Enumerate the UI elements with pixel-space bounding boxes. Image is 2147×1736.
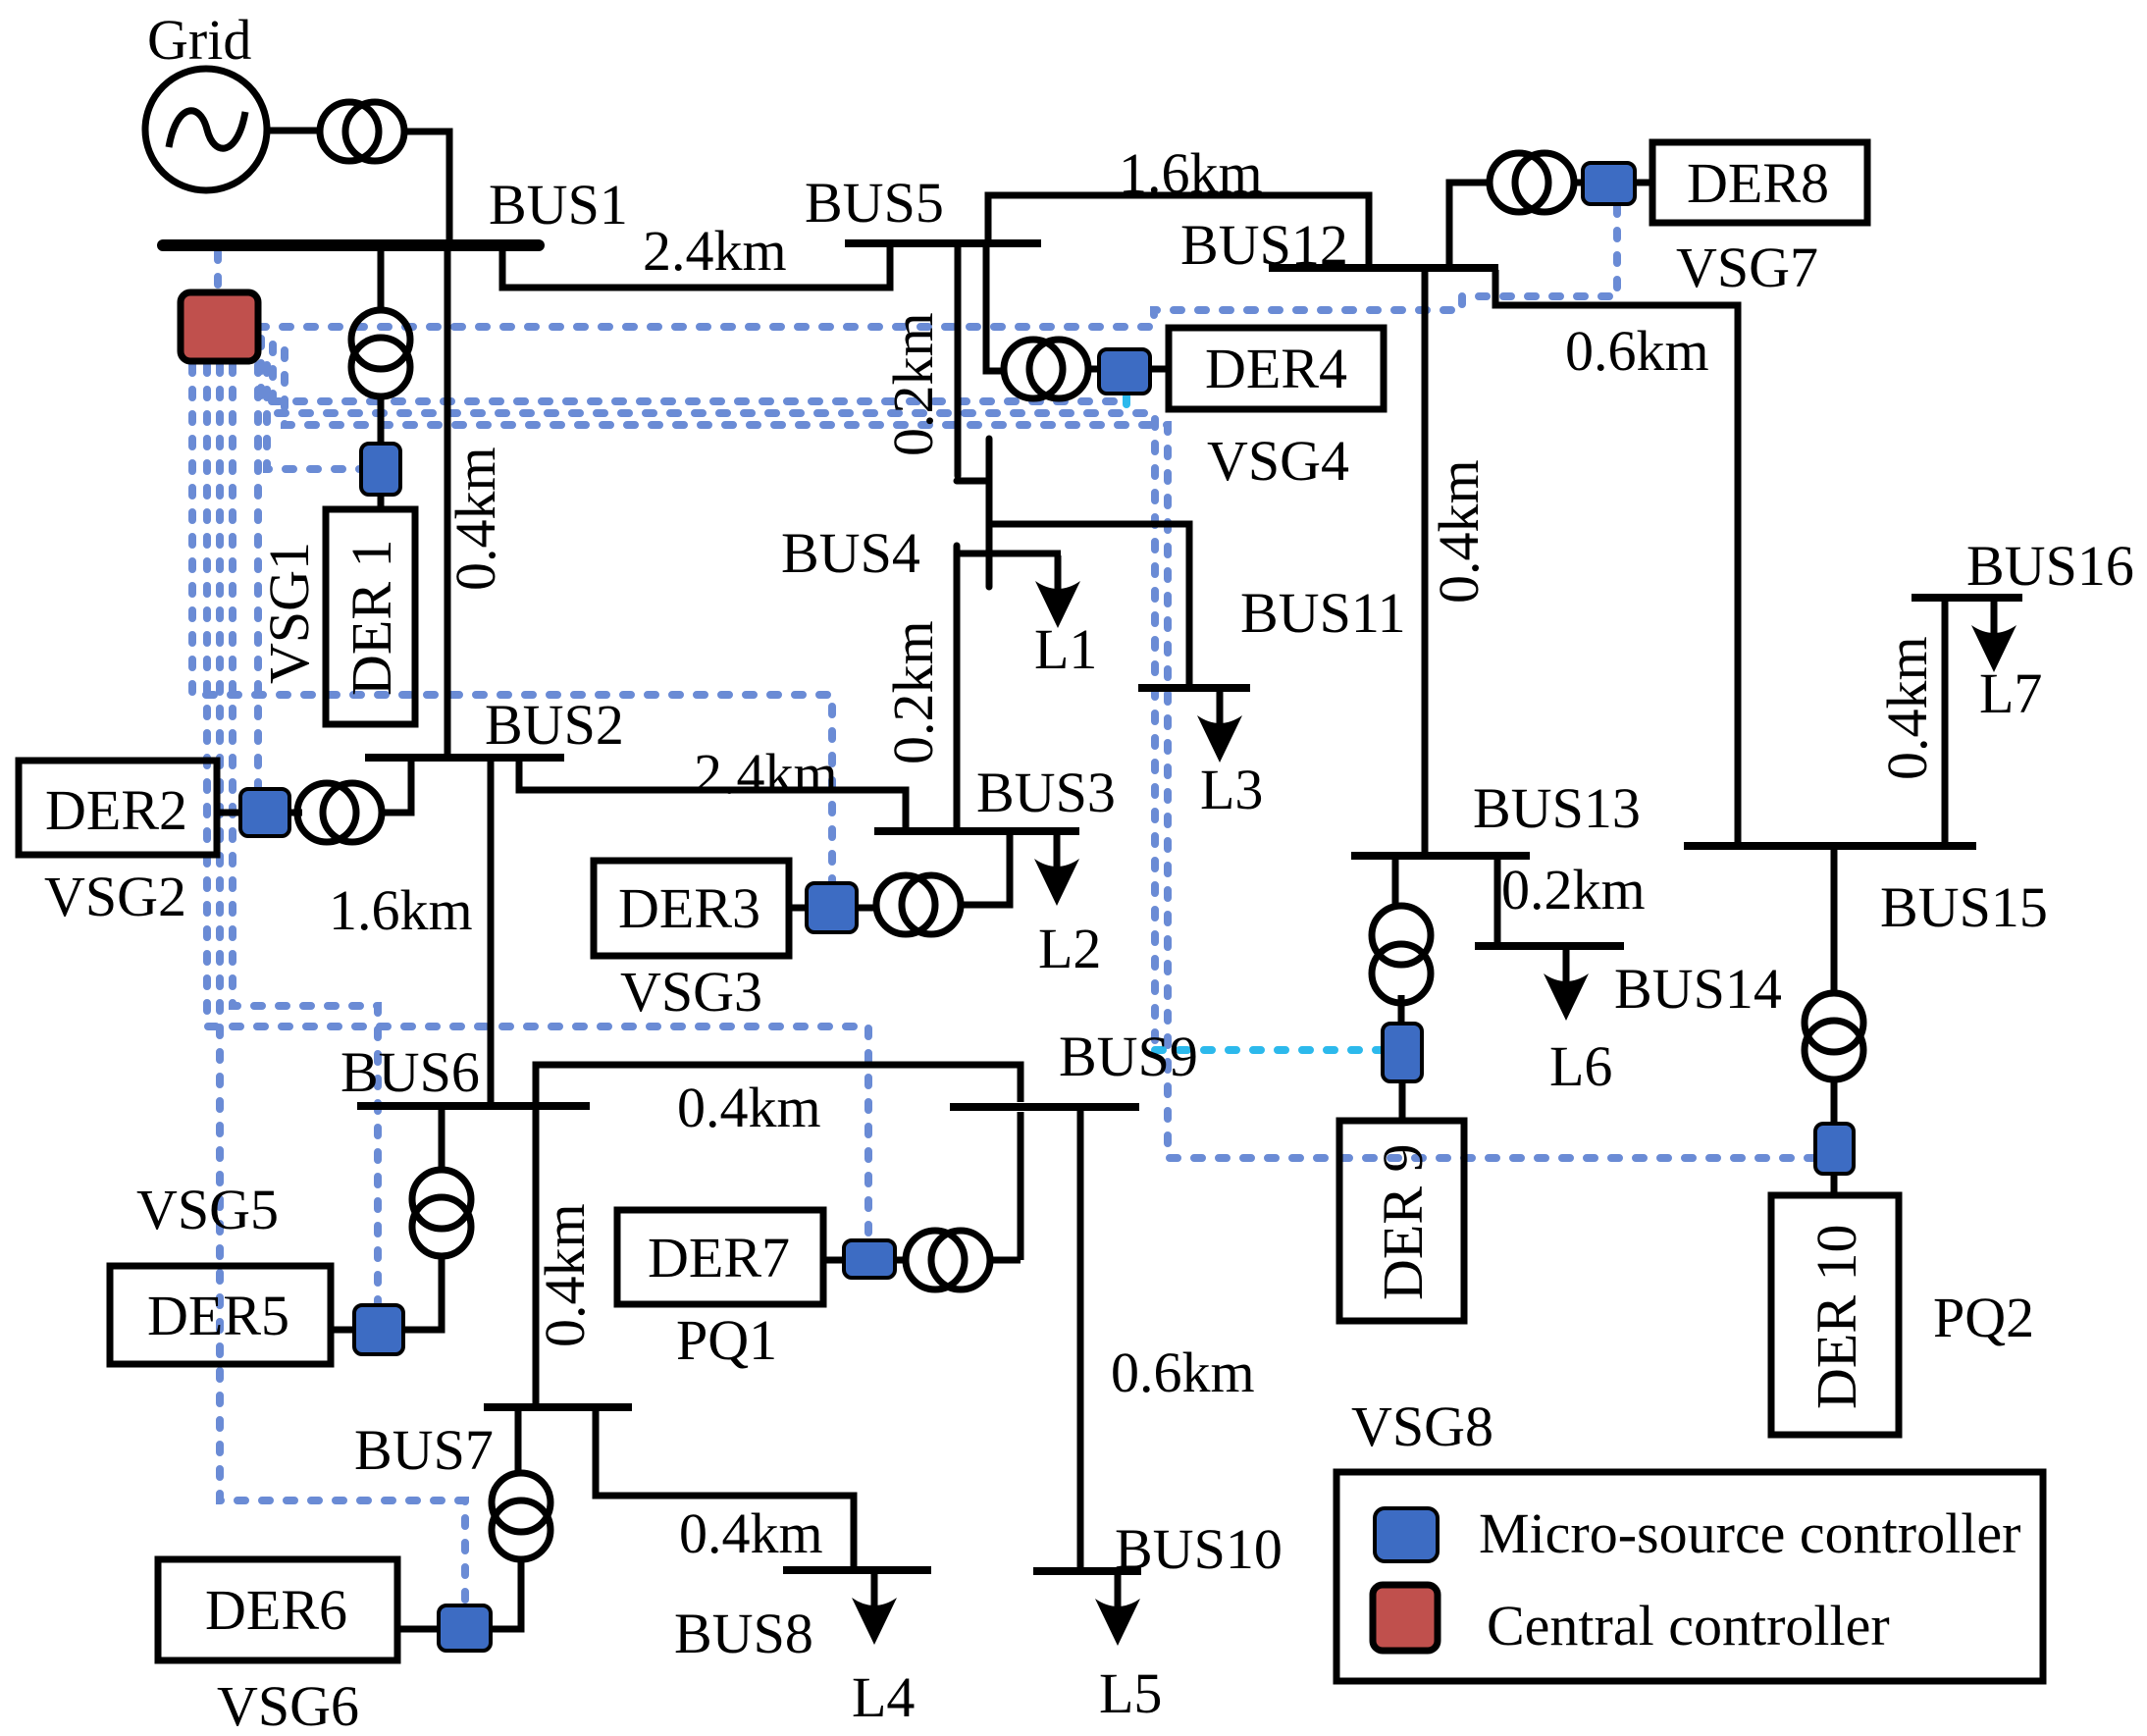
svg-text:0.4km: 0.4km [1427,459,1491,604]
svg-text:2.4km: 2.4km [694,742,838,806]
svg-text:L5: L5 [1099,1661,1162,1725]
svg-text:Micro-source controller: Micro-source controller [1479,1501,2020,1565]
svg-text:0.2km: 0.2km [1501,858,1646,921]
svg-text:0.4km: 0.4km [1875,636,1939,780]
svg-text:VSG6: VSG6 [217,1674,359,1736]
svg-text:VSG2: VSG2 [44,865,186,928]
svg-text:0.4km: 0.4km [533,1203,597,1347]
svg-text:BUS13: BUS13 [1473,776,1641,840]
svg-text:BUS16: BUS16 [1966,534,2134,598]
svg-text:BUS4: BUS4 [781,521,920,585]
svg-text:0.4km: 0.4km [679,1501,823,1565]
svg-text:DER8: DER8 [1687,151,1829,215]
svg-text:PQ2: PQ2 [1933,1286,2034,1349]
svg-text:DER5: DER5 [147,1284,289,1347]
svg-text:L1: L1 [1034,617,1097,681]
svg-text:0.4km: 0.4km [444,447,507,591]
svg-text:BUS1: BUS1 [489,173,628,237]
svg-text:BUS5: BUS5 [805,171,944,235]
svg-text:VSG8: VSG8 [1351,1394,1493,1458]
svg-text:DER 10: DER 10 [1805,1225,1868,1410]
svg-text:BUS6: BUS6 [340,1040,480,1104]
svg-text:0.2km: 0.2km [881,312,945,456]
svg-text:DER7: DER7 [648,1226,790,1289]
svg-text:L7: L7 [1979,661,2042,725]
svg-text:BUS14: BUS14 [1614,957,1782,1021]
svg-text:DER2: DER2 [45,778,187,842]
svg-text:DER3: DER3 [618,876,760,940]
svg-text:VSG4: VSG4 [1207,429,1349,493]
svg-text:DER 1: DER 1 [340,540,403,697]
svg-text:2.4km: 2.4km [643,219,787,283]
svg-text:BUS9: BUS9 [1059,1025,1198,1088]
svg-text:BUS11: BUS11 [1240,581,1406,645]
svg-text:DER4: DER4 [1205,337,1347,400]
svg-text:0.6km: 0.6km [1111,1341,1255,1404]
svg-text:DER6: DER6 [205,1578,347,1642]
svg-text:VSG7: VSG7 [1676,236,1818,299]
svg-text:L2: L2 [1038,917,1101,980]
svg-text:1.6km: 1.6km [329,878,473,942]
svg-text:1.6km: 1.6km [1119,141,1263,205]
svg-text:DER 9: DER 9 [1371,1144,1435,1301]
svg-text:Central controller: Central controller [1487,1594,1890,1657]
svg-text:PQ1: PQ1 [676,1308,777,1372]
svg-text:L3: L3 [1200,758,1263,821]
svg-text:0.4km: 0.4km [677,1076,821,1139]
svg-text:0.6km: 0.6km [1565,319,1709,383]
svg-text:L4: L4 [852,1665,915,1729]
svg-text:BUS12: BUS12 [1180,213,1348,277]
svg-text:BUS10: BUS10 [1115,1517,1283,1581]
svg-text:BUS3: BUS3 [976,761,1116,824]
svg-text:VSG1: VSG1 [257,542,321,684]
svg-text:VSG3: VSG3 [620,960,762,1024]
svg-text:BUS8: BUS8 [674,1602,813,1665]
svg-text:0.2km: 0.2km [881,620,945,764]
svg-text:Grid: Grid [147,8,251,72]
svg-text:L6: L6 [1549,1034,1612,1098]
svg-text:BUS15: BUS15 [1880,875,2048,939]
svg-text:BUS2: BUS2 [485,693,624,757]
svg-text:VSG5: VSG5 [136,1178,279,1241]
svg-text:BUS7: BUS7 [354,1418,494,1482]
